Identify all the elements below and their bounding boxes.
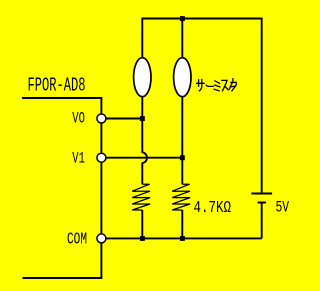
wire top bus from left thermistor to battery branch (142, 18, 261, 20)
junction dot top bus / right branch (180, 16, 185, 21)
terminal circle COM (97, 234, 106, 243)
wire left branch middle segment with hop over V1 wire (142, 97, 147, 185)
katakana sa (197, 80, 205, 91)
svg-text:V1: V1 (72, 150, 85, 168)
katakana mi (214, 81, 220, 91)
katakana su (222, 80, 229, 90)
wire right branch upper segment (181, 18, 183, 58)
resistor R2 (right 4.7k zigzag) (172, 184, 190, 210)
wire battery branch upper segment (261, 18, 263, 194)
wire right branch lower segment (181, 210, 183, 238)
battery BT1 positive plate (251, 193, 272, 195)
svg-text:5V: 5V (276, 199, 290, 217)
wire V0 from terminal to left branch (101, 118, 142, 120)
katakana long vowel mark (206, 85, 213, 86)
wire right branch middle segment (181, 97, 183, 185)
wire left branch lower segment (141, 210, 143, 238)
thermistor TH1 body (left ellipse) (134, 58, 151, 97)
svg-text:FPOR-AD8: FPOR-AD8 (28, 75, 86, 97)
svg-text:4.7KΩ: 4.7KΩ (194, 199, 232, 218)
wire V1 from terminal to right branch (101, 157, 182, 159)
thermistor TH2 body (right ellipse) (174, 58, 191, 97)
label thermistor (katakana sa-mi-su-ta) drawn as paths (197, 79, 237, 91)
wire COM bus from terminal to battery branch (101, 237, 261, 239)
resistor R1 (left 4.7k zigzag) (132, 184, 150, 210)
junction dot V1 / right branch (180, 155, 185, 160)
svg-text:VO: VO (72, 109, 85, 127)
svg-text:COM: COM (67, 231, 87, 250)
battery BT1 negative plate (258, 202, 266, 204)
terminal circle V1 (97, 153, 106, 162)
PLC module FP0R-AD8 outline (top edge, right edge, bottom edge) (22, 98, 101, 278)
junction dot COM / right branch (180, 236, 185, 241)
junction dot COM / left branch (140, 236, 145, 241)
wire battery branch lower segment (261, 203, 263, 239)
katakana ta (229, 79, 236, 91)
terminal circle V0 (97, 114, 106, 123)
wire left branch upper segment (141, 18, 143, 58)
junction dot V0 / left branch (140, 116, 145, 121)
